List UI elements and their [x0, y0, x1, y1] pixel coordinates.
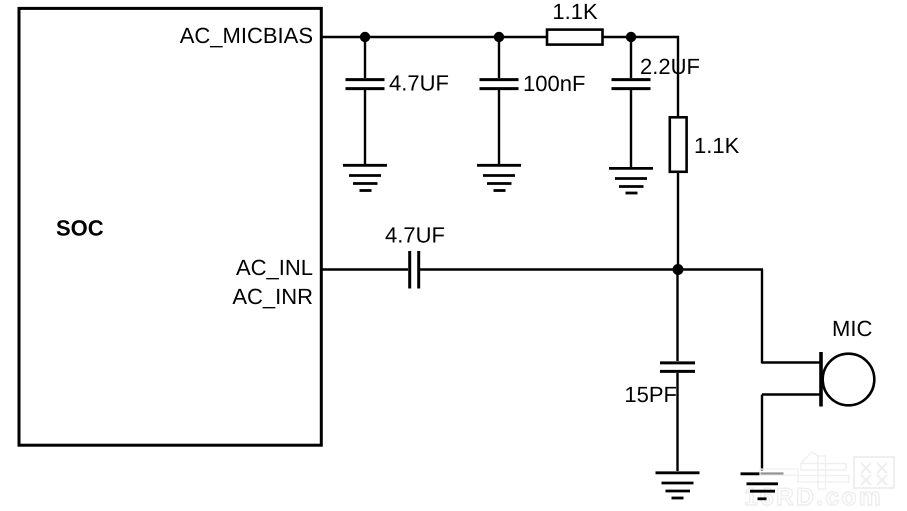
wire C4 to node [420, 268, 679, 270]
pin label AC_MICBIAS [180, 23, 313, 48]
capacitor C4 4.7UF (series) [410, 251, 419, 289]
microphone MIC symbol [821, 352, 874, 407]
capacitor C1 4.7UF [346, 37, 385, 164]
label MIC [832, 316, 872, 341]
svg-text:4.7UF: 4.7UF [385, 223, 445, 248]
wire MIC top lead [762, 361, 820, 363]
capacitor C5 15PF [660, 270, 695, 472]
watermark 一牛网 16RD.com (under layer) [744, 452, 894, 511]
ground (MIC) [741, 474, 784, 499]
junction node at C2 [494, 32, 504, 42]
wire node to MIC branch (horizontal) [678, 268, 763, 270]
value label 100nF (C2) [523, 71, 585, 96]
watermark char 一 (overlay graying mic ground line) [760, 469, 798, 475]
wire MIC ground lead [761, 395, 763, 472]
value label 2.2UF (C3) [640, 54, 700, 79]
value label 1.1K (R1) [552, 0, 598, 24]
ground (C1) [343, 165, 387, 190]
svg-text:1.1K: 1.1K [552, 0, 598, 24]
svg-text:SOC: SOC [56, 216, 104, 241]
wire AC_MICBIAS net (horizontal top) [321, 36, 679, 38]
svg-text:AC_MICBIAS: AC_MICBIAS [180, 23, 313, 48]
value label 1.1K (R2) [694, 133, 740, 158]
IC SOC box [19, 8, 321, 445]
junction node at C1 [360, 32, 370, 42]
wire MIC bottom lead [762, 393, 820, 395]
svg-text:1.1K: 1.1K [694, 133, 740, 158]
svg-text:AC_INL: AC_INL [236, 255, 313, 280]
resistor R1 1.1K (horizontal) [547, 30, 603, 45]
capacitor C2 100nF [480, 37, 519, 164]
svg-text:100nF: 100nF [523, 71, 585, 96]
svg-text:MIC: MIC [832, 316, 872, 341]
ground (C3) [609, 168, 653, 193]
svg-text:4.7UF: 4.7UF [389, 71, 449, 96]
svg-text:15PF: 15PF [624, 382, 677, 407]
resistor R2 1.1K (vertical) [670, 117, 687, 172]
svg-text:AC_INR: AC_INR [232, 284, 313, 309]
char 网 [854, 457, 894, 488]
pin label AC_INL [236, 255, 313, 280]
capacitor C3 2.2UF [612, 37, 651, 167]
label SOC [56, 216, 104, 241]
junction node main [673, 264, 684, 275]
wire MIC branch down [761, 270, 763, 364]
wire R2 to node [677, 172, 679, 270]
wire AC_INL net (horizontal) [321, 268, 408, 270]
ground (C5) [656, 473, 700, 498]
char 牛 [798, 452, 849, 489]
pin label AC_INR [232, 284, 313, 309]
value label 4.7UF (C4) [385, 223, 445, 248]
wire MICBIAS to R2 (vertical right) [677, 36, 679, 117]
value label 15PF (C5) [624, 382, 677, 407]
junction node at C3 [626, 32, 636, 42]
svg-text:2.2UF: 2.2UF [640, 54, 700, 79]
value label 4.7UF (C1) [389, 71, 449, 96]
ground (C2) [477, 165, 521, 190]
